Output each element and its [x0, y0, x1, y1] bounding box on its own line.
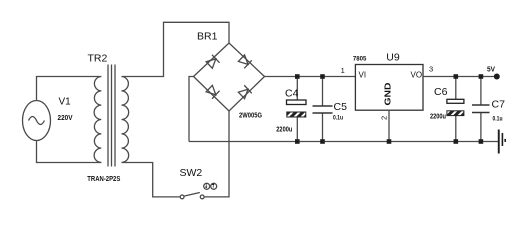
capacitor C4 bottom lead	[296, 118, 298, 142]
bridge diode D-topright	[238, 54, 252, 68]
transformer TR2 core line 3	[114, 65, 116, 167]
sine wave inside V1	[29, 117, 45, 125]
svg-text:V1: V1	[59, 97, 72, 108]
capacitor C7 plates	[472, 105, 490, 113]
svg-text:220V: 220V	[58, 115, 73, 122]
ground rail	[189, 141, 498, 143]
svg-text:7805: 7805	[353, 56, 367, 63]
terminal 5V output dot	[494, 74, 500, 80]
switch SW2 blade	[184, 193, 200, 197]
switch SW2 actuator circle down	[211, 183, 217, 189]
svg-text:U9: U9	[386, 52, 400, 64]
U9 GND pin wire	[388, 110, 390, 141]
svg-text:5V: 5V	[487, 66, 495, 73]
junction C4 top	[295, 74, 300, 79]
junction C4 bottom	[295, 139, 300, 144]
capacitor C5 plates	[313, 106, 333, 113]
svg-text:TRAN-2P2S: TRAN-2P2S	[87, 176, 120, 183]
capacitor C6 negative hatched plate	[447, 111, 464, 116]
svg-text:GND: GND	[384, 82, 393, 105]
switch SW2 actuator arrow up	[212, 183, 215, 187]
ground symbol tick	[504, 139, 506, 142]
switch SW2 actuator circle up	[204, 183, 210, 189]
svg-text:C4: C4	[285, 88, 299, 100]
svg-text:0.1u: 0.1u	[333, 115, 343, 122]
ground symbol short bar	[502, 133, 504, 146]
capacitor C7 leads	[480, 77, 482, 142]
junction C6 top	[454, 74, 459, 79]
wire secondary bottom to SW2	[122, 163, 181, 197]
svg-text:C5: C5	[334, 101, 348, 113]
svg-text:3: 3	[429, 65, 433, 74]
wire V1 bottom to primary	[37, 141, 102, 163]
regulator U9 body	[355, 65, 423, 111]
switch SW2 left terminal	[180, 195, 184, 199]
capacitor C4 positive plate	[287, 100, 307, 105]
capacitor C4 top lead	[296, 77, 298, 101]
wire SW2 to bridge bottom corner	[204, 111, 229, 197]
svg-text:0.1u: 0.1u	[493, 116, 503, 123]
svg-text:VO: VO	[411, 71, 423, 80]
bridge BR1 diamond outline	[194, 43, 265, 111]
junction U9 GND bottom	[387, 139, 392, 144]
svg-text:VI: VI	[359, 71, 367, 80]
transformer TR2 core line 1	[107, 65, 109, 167]
bridge diode D-bottomright	[238, 85, 252, 99]
svg-text:1: 1	[341, 66, 345, 75]
junction C7 top	[479, 74, 484, 79]
svg-text:TR2: TR2	[88, 53, 108, 65]
capacitor C4 negative hatched plate	[287, 112, 306, 117]
wire bridge minus corner to ground rail	[189, 77, 194, 142]
capacitor C6 bottom lead	[455, 116, 457, 142]
svg-text:C6: C6	[434, 86, 448, 98]
svg-text:2: 2	[380, 116, 389, 120]
junction C7 bottom	[479, 139, 484, 144]
junction C5 top	[320, 74, 325, 79]
switch SW2 actuator arrow down	[205, 184, 208, 188]
svg-text:2200u: 2200u	[430, 113, 446, 120]
capacitor C6 top lead	[455, 77, 457, 100]
wire bridge plus corner to U9 VI	[265, 76, 356, 78]
bridge diode D-topleft	[205, 55, 219, 69]
bridge diode D-bottomleft	[205, 85, 219, 99]
svg-text:BR1: BR1	[197, 31, 218, 43]
wire U9 VO to 5V terminal	[423, 76, 495, 78]
svg-text:2200u: 2200u	[276, 126, 292, 133]
capacitor C5 leads	[322, 77, 324, 142]
transformer TR2 secondary winding	[122, 77, 129, 163]
AC source V1	[23, 101, 51, 141]
capacitor C6 positive plate	[447, 99, 464, 103]
junction C5 bottom	[320, 139, 325, 144]
transformer TR2 core line 2	[111, 65, 113, 167]
ground symbol long bar	[498, 130, 500, 154]
transformer TR2 primary winding	[94, 77, 101, 163]
wire secondary top to bridge top corner	[122, 22, 230, 76]
svg-text:C7: C7	[492, 99, 506, 111]
wire V1 top to primary	[37, 77, 102, 101]
junction C6 bottom	[454, 139, 459, 144]
svg-text:2W005G: 2W005G	[239, 112, 262, 119]
svg-text:SW2: SW2	[180, 167, 203, 179]
switch SW2 right terminal	[200, 195, 204, 199]
